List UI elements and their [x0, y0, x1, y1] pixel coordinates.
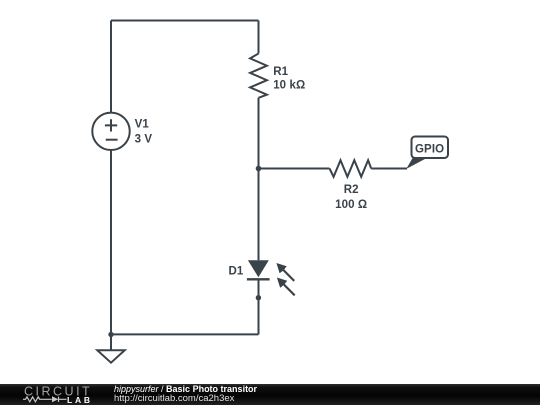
svg-text:V1: V1	[135, 119, 150, 131]
svg-text:D1: D1	[228, 266, 243, 278]
svg-text:10 kΩ: 10 kΩ	[273, 79, 305, 91]
svg-text:GPIO: GPIO	[415, 143, 444, 155]
svg-text:LAB: LAB	[67, 395, 93, 405]
svg-text:100 Ω: 100 Ω	[335, 199, 367, 211]
svg-text:R1: R1	[273, 66, 288, 78]
svg-text:R2: R2	[344, 184, 359, 196]
svg-text:3 V: 3 V	[135, 134, 153, 146]
